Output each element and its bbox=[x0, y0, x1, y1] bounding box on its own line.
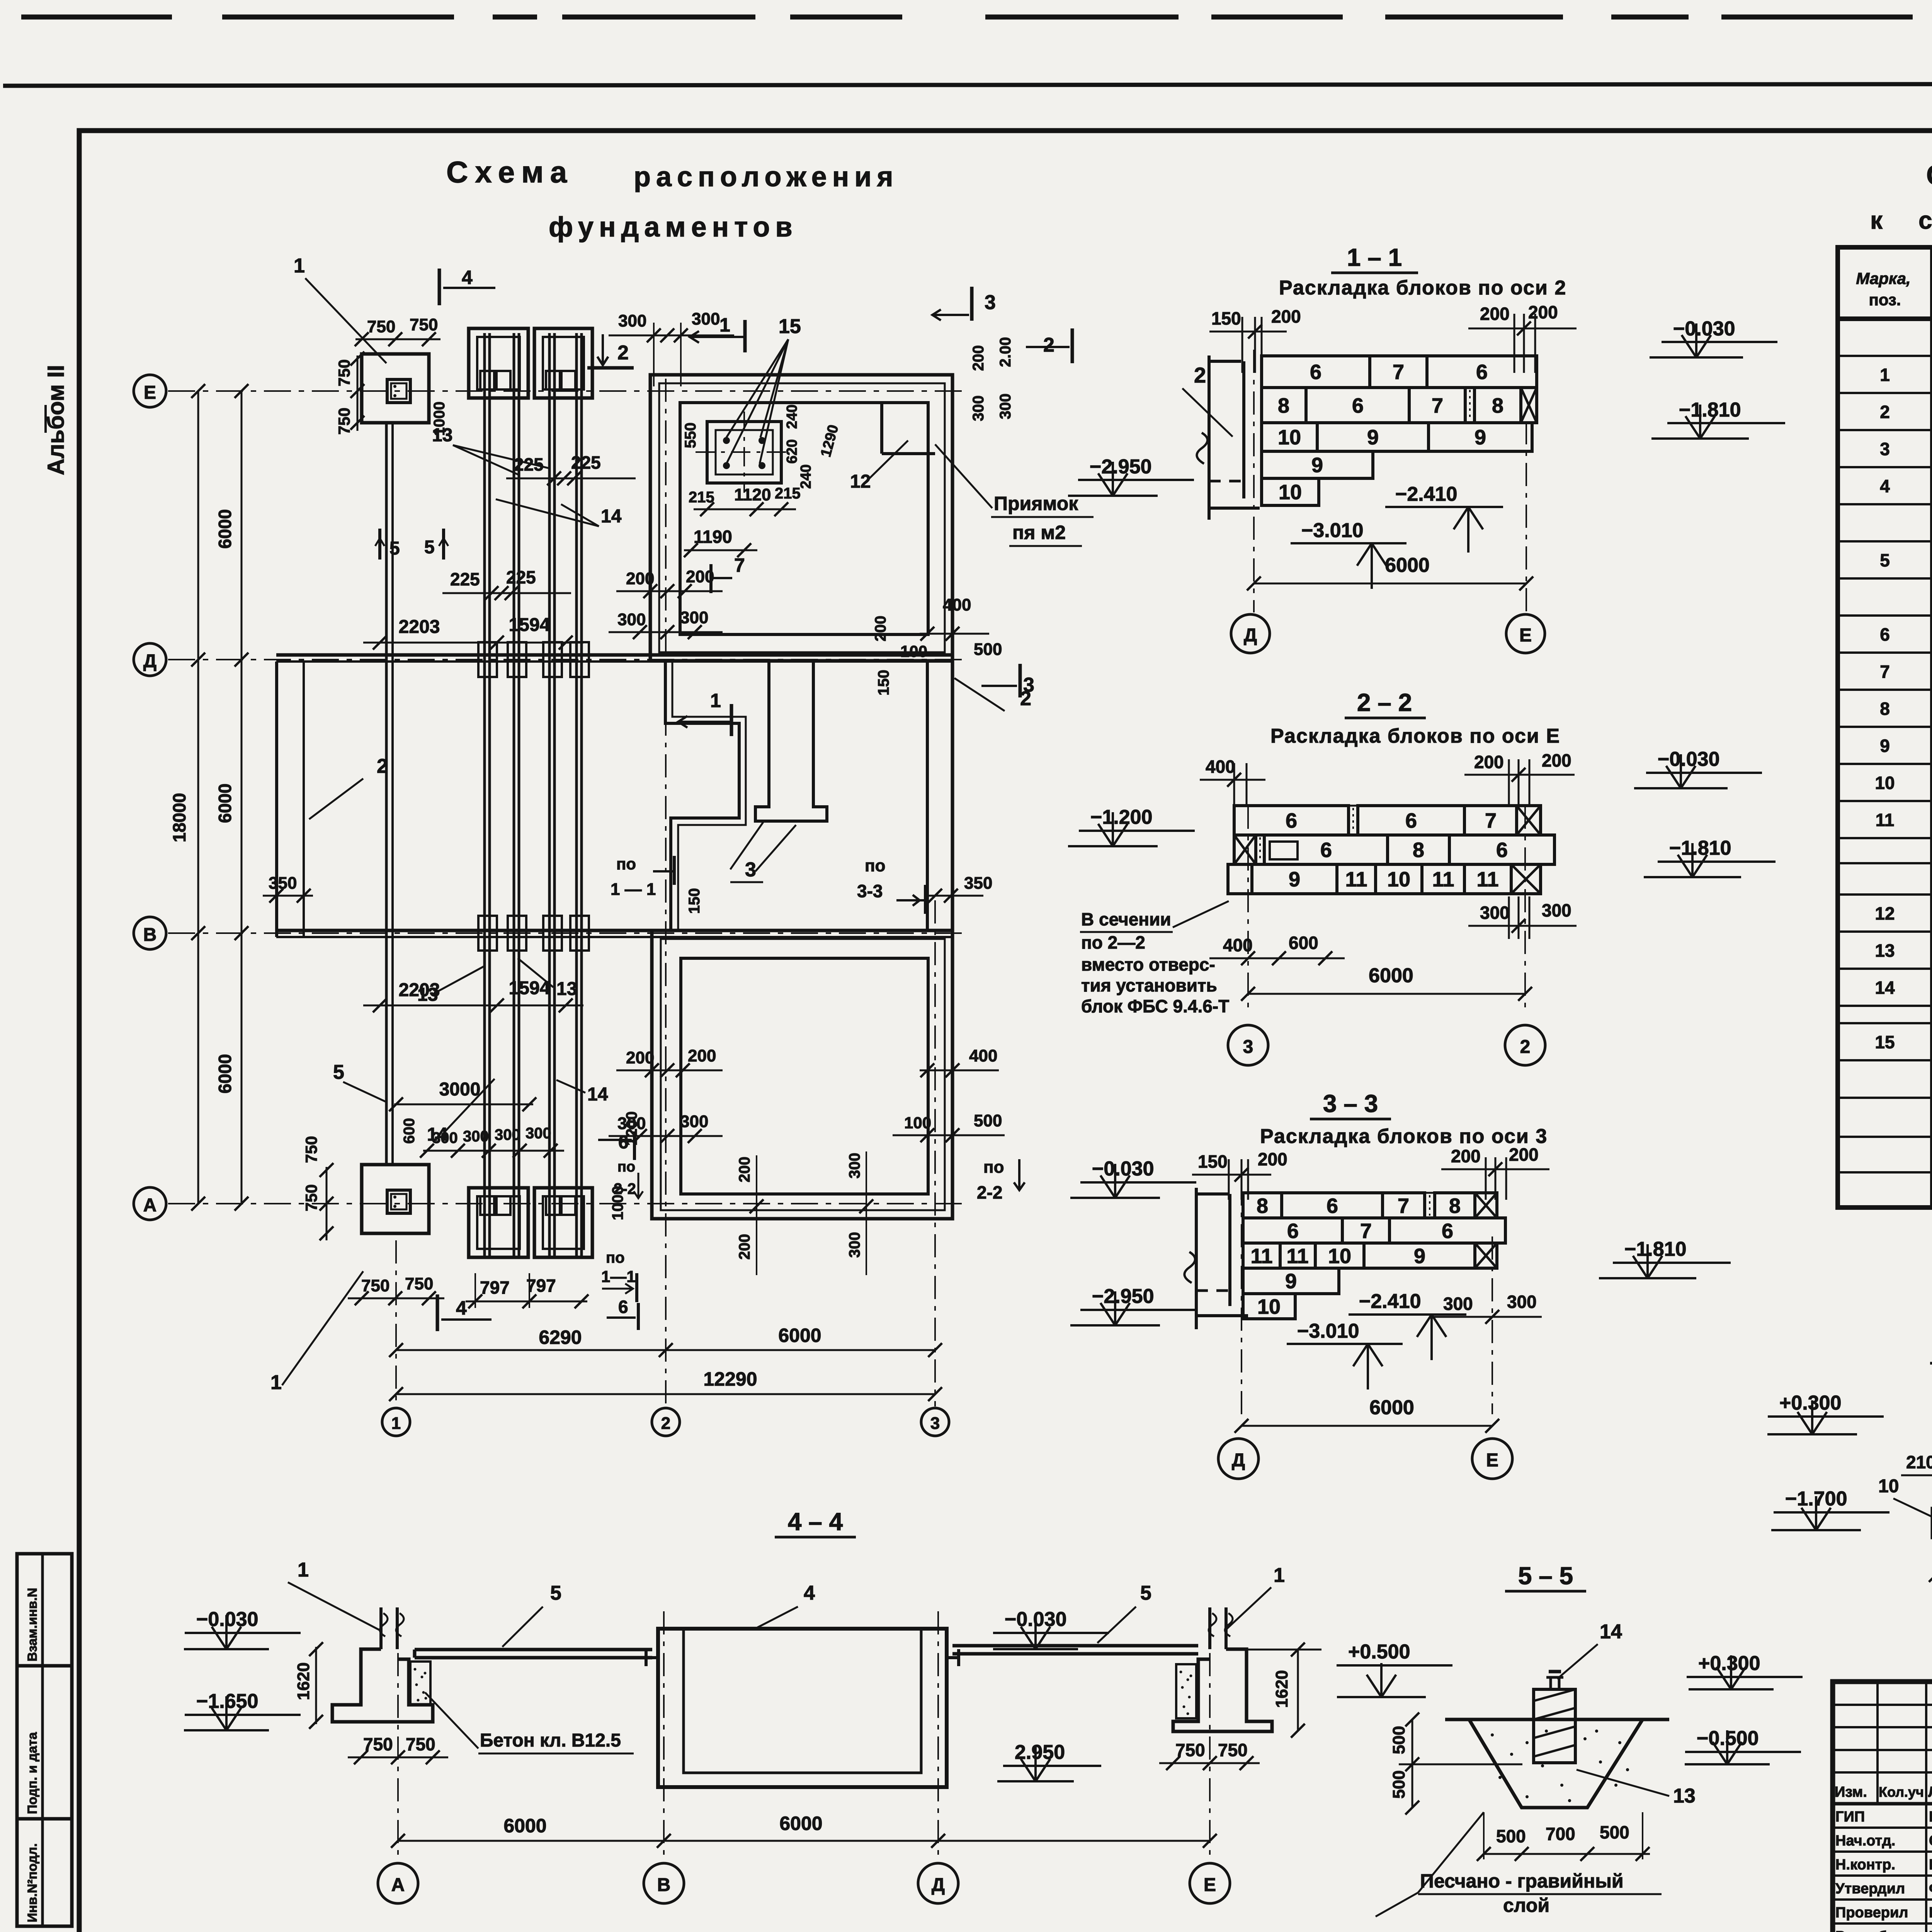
svg-text:Е: Е bbox=[1486, 1450, 1498, 1471]
svg-text:к: к bbox=[1870, 206, 1883, 234]
svg-text:200: 200 bbox=[1542, 750, 1571, 770]
svg-text:8: 8 bbox=[1449, 1194, 1461, 1218]
svg-text:6: 6 bbox=[618, 1132, 629, 1153]
svg-text:Проверил: Проверил bbox=[1835, 1905, 1908, 1921]
svg-text:1: 1 bbox=[294, 255, 305, 277]
svg-text:1620: 1620 bbox=[1272, 1670, 1291, 1708]
svg-text:2: 2 bbox=[1520, 1037, 1531, 1057]
section 6-6 bbox=[1767, 1334, 1932, 1630]
svg-text:6: 6 bbox=[1286, 809, 1297, 832]
svg-text:6290: 6290 bbox=[539, 1327, 582, 1348]
rail anchor box bottom left bbox=[469, 1188, 528, 1257]
svg-text:А: А bbox=[143, 1195, 157, 1216]
svg-text:6: 6 bbox=[1352, 394, 1364, 417]
svg-text:вместо отверс-: вместо отверс- bbox=[1081, 954, 1215, 975]
plan bottom dims bbox=[382, 379, 949, 1436]
svg-text:по: по bbox=[616, 855, 636, 873]
svg-text:6: 6 bbox=[618, 1297, 628, 1317]
dims bottom room bbox=[601, 1046, 1025, 1330]
svg-text:300: 300 bbox=[692, 310, 720, 328]
svg-text:5: 5 bbox=[424, 537, 435, 558]
pit PYam2 plan bbox=[696, 412, 792, 493]
rail clamps at axis V bbox=[478, 916, 497, 951]
svg-text:200: 200 bbox=[626, 569, 654, 588]
svg-text:9: 9 bbox=[1285, 1270, 1297, 1293]
svg-text:11: 11 bbox=[1345, 868, 1367, 891]
svg-text:10: 10 bbox=[1875, 773, 1895, 793]
section cut 2 right bbox=[1026, 328, 1072, 363]
section cut 3 mid bbox=[981, 664, 1034, 697]
svg-text:200: 200 bbox=[1451, 1146, 1481, 1166]
svg-text:3: 3 bbox=[930, 1414, 940, 1433]
pit PYam1 (4-4) bbox=[646, 1582, 959, 1787]
svg-text:1: 1 bbox=[391, 1414, 401, 1433]
svg-text:тия установить: тия установить bbox=[1081, 975, 1217, 995]
svg-text:10: 10 bbox=[1279, 481, 1302, 504]
svg-text:750: 750 bbox=[361, 1276, 389, 1295]
svg-text:150: 150 bbox=[1211, 308, 1241, 328]
axis circle А (4-4) bbox=[397, 1611, 399, 1862]
corner notch 12 bbox=[850, 404, 935, 492]
svg-text:3-3: 3-3 bbox=[857, 881, 883, 901]
building bottom room bbox=[652, 930, 952, 1219]
svg-text:10: 10 bbox=[1328, 1245, 1351, 1268]
svg-text:12: 12 bbox=[850, 471, 871, 492]
svg-text:6: 6 bbox=[1880, 624, 1890, 645]
rail anchor box top left bbox=[469, 328, 528, 398]
svg-text:14: 14 bbox=[587, 1084, 608, 1105]
section cut 1 top bbox=[690, 314, 745, 352]
svg-text:Бабурин: Бабурин bbox=[1929, 1857, 1932, 1873]
svg-text:Спецификация: Спецификация bbox=[1926, 160, 1932, 191]
svg-text:6: 6 bbox=[1442, 1219, 1453, 1243]
svg-text:1 — 1: 1 — 1 bbox=[611, 880, 656, 899]
section cut 6 marks bbox=[598, 1131, 643, 1198]
svg-text:200: 200 bbox=[1509, 1145, 1539, 1165]
axis circle 3 (2-2) bbox=[1228, 1025, 1268, 1065]
svg-text:3 – 3: 3 – 3 bbox=[1323, 1090, 1378, 1117]
labels 13 14 rails top bbox=[432, 425, 622, 527]
svg-text:Инв.N²подл.: Инв.N²подл. bbox=[25, 1843, 40, 1922]
dims 225 upper bbox=[506, 452, 636, 485]
specification table bbox=[1838, 247, 1932, 1207]
svg-text:600: 600 bbox=[1289, 933, 1318, 953]
section 1-1 bbox=[1068, 243, 1785, 653]
svg-text:200: 200 bbox=[1258, 1149, 1287, 1169]
svg-text:7: 7 bbox=[1360, 1219, 1372, 1243]
svg-text:9: 9 bbox=[1475, 426, 1486, 449]
svg-text:300: 300 bbox=[846, 1232, 863, 1258]
svg-text:8: 8 bbox=[1880, 699, 1890, 719]
svg-text:6000: 6000 bbox=[215, 509, 235, 549]
svg-text:Песчано - гравийный: Песчано - гравийный bbox=[1420, 1870, 1624, 1892]
svg-text:Е: Е bbox=[1519, 625, 1532, 646]
svg-text:350: 350 bbox=[964, 874, 992, 893]
plan axis D bbox=[168, 659, 966, 660]
svg-text:13: 13 bbox=[1673, 1785, 1696, 1807]
svg-text:620: 620 bbox=[784, 439, 800, 464]
svg-text:по: по bbox=[983, 1158, 1004, 1177]
building top room bbox=[650, 375, 952, 661]
svg-text:ГИП: ГИП bbox=[1835, 1809, 1865, 1825]
svg-text:5: 5 bbox=[1880, 550, 1890, 570]
svg-text:750: 750 bbox=[367, 317, 395, 336]
svg-text:550: 550 bbox=[682, 422, 699, 448]
svg-text:300: 300 bbox=[526, 1125, 551, 1142]
svg-text:300: 300 bbox=[617, 610, 646, 629]
svg-text:8: 8 bbox=[1278, 394, 1289, 417]
svg-text:3000: 3000 bbox=[439, 1079, 481, 1100]
axis circle 2 (plan) bbox=[665, 379, 667, 1406]
section cut 2 top bbox=[587, 334, 634, 368]
svg-text:200: 200 bbox=[736, 1156, 753, 1182]
svg-text:750: 750 bbox=[1218, 1740, 1248, 1760]
rail pit (5-5) bbox=[1445, 1672, 1669, 1808]
dims 797 bbox=[466, 1273, 588, 1308]
svg-text:150: 150 bbox=[686, 888, 703, 914]
slab 5 right (4-4) bbox=[952, 1644, 1198, 1648]
svg-text:3: 3 bbox=[985, 291, 996, 314]
svg-text:Севостьянов: Севостьянов bbox=[1929, 1833, 1932, 1849]
svg-text:14: 14 bbox=[1600, 1621, 1622, 1643]
svg-text:схеме: схеме bbox=[1918, 206, 1932, 234]
svg-text:поз.: поз. bbox=[1869, 291, 1901, 309]
svg-text:5: 5 bbox=[333, 1061, 344, 1083]
svg-text:6: 6 bbox=[1405, 809, 1417, 832]
svg-text:3: 3 bbox=[745, 859, 756, 881]
footing Fm1 left (4-4) bbox=[332, 1607, 433, 1722]
svg-text:750: 750 bbox=[302, 1136, 320, 1163]
svg-text:1620: 1620 bbox=[294, 1662, 313, 1700]
svg-text:6000: 6000 bbox=[1369, 1396, 1414, 1419]
svg-text:по: по bbox=[865, 856, 885, 875]
svg-text:Е: Е bbox=[1204, 1875, 1216, 1895]
dims 225 lower bbox=[442, 567, 571, 600]
svg-text:7: 7 bbox=[1398, 1194, 1409, 1218]
svg-text:797: 797 bbox=[526, 1276, 556, 1296]
section 2-2 bbox=[1068, 689, 1776, 1065]
svg-text:Д: Д bbox=[143, 651, 156, 672]
svg-text:5: 5 bbox=[1140, 1582, 1151, 1604]
svg-text:1: 1 bbox=[298, 1559, 309, 1581]
svg-text:10: 10 bbox=[1387, 868, 1410, 891]
svg-text:225: 225 bbox=[506, 567, 536, 587]
svg-text:11: 11 bbox=[1476, 868, 1498, 891]
svg-text:750: 750 bbox=[410, 315, 438, 334]
svg-text:слой: слой bbox=[1503, 1895, 1549, 1916]
svg-text:по: по bbox=[606, 1249, 625, 1266]
svg-text:2: 2 bbox=[1880, 402, 1890, 422]
svg-text:400: 400 bbox=[969, 1046, 997, 1065]
svg-text:Д: Д bbox=[1244, 625, 1257, 646]
plan axis E bbox=[168, 390, 966, 392]
svg-text:300: 300 bbox=[1507, 1292, 1537, 1312]
title block bbox=[1833, 1682, 1932, 1932]
svg-text:150: 150 bbox=[1198, 1151, 1228, 1172]
dim 3000 bbox=[389, 1079, 536, 1111]
svg-text:215: 215 bbox=[775, 485, 801, 502]
svg-text:750: 750 bbox=[335, 408, 353, 435]
svg-text:4 – 4: 4 – 4 bbox=[788, 1508, 843, 1536]
svg-text:500: 500 bbox=[1600, 1822, 1629, 1842]
svg-text:2-2: 2-2 bbox=[977, 1182, 1002, 1202]
svg-text:2: 2 bbox=[617, 342, 629, 364]
svg-text:8: 8 bbox=[1257, 1194, 1268, 1218]
main title bbox=[446, 155, 898, 243]
svg-text:2 – 2: 2 – 2 bbox=[1357, 689, 1412, 716]
svg-text:2: 2 bbox=[377, 755, 388, 777]
svg-text:200: 200 bbox=[626, 1048, 654, 1067]
svg-text:10: 10 bbox=[1878, 1476, 1899, 1497]
svg-text:Бабурин: Бабурин bbox=[1929, 1905, 1932, 1921]
svg-text:6: 6 bbox=[1320, 838, 1332, 862]
svg-text:8: 8 bbox=[1492, 394, 1503, 417]
beam along axis 1 bbox=[386, 423, 393, 1165]
svg-text:Кол.уч: Кол.уч bbox=[1879, 1784, 1924, 1800]
svg-text:1290: 1290 bbox=[818, 423, 842, 459]
svg-text:1: 1 bbox=[1274, 1564, 1285, 1587]
axis circle D (3-3) bbox=[1218, 1439, 1259, 1479]
svg-text:225: 225 bbox=[514, 454, 544, 474]
svg-text:750: 750 bbox=[406, 1734, 435, 1754]
svg-text:750: 750 bbox=[302, 1184, 320, 1211]
svg-text:200: 200 bbox=[1474, 752, 1504, 772]
svg-text:В: В bbox=[143, 925, 157, 945]
svg-text:200: 200 bbox=[736, 1234, 753, 1260]
pad Fm1 bottom bbox=[270, 1136, 444, 1394]
axis circle В (4-4) bbox=[663, 1611, 665, 1862]
svg-text:6: 6 bbox=[1476, 361, 1488, 384]
svg-text:2: 2 bbox=[661, 1414, 670, 1433]
svg-text:300: 300 bbox=[970, 395, 987, 421]
footing Fm1 right (4-4) bbox=[1173, 1607, 1272, 1731]
labels 13 lower bbox=[417, 958, 577, 1005]
svg-text:Раскладка блоков по оси Е: Раскладка блоков по оси Е bbox=[1270, 725, 1560, 747]
section 7-7 bbox=[134, 255, 1932, 1562]
svg-text:300: 300 bbox=[1443, 1294, 1473, 1314]
svg-text:500: 500 bbox=[974, 640, 1002, 659]
svg-text:Утвердил: Утвердил bbox=[1835, 1881, 1905, 1897]
svg-text:Федотов: Федотов bbox=[1929, 1881, 1932, 1897]
svg-text:225: 225 bbox=[571, 452, 601, 473]
svg-text:9: 9 bbox=[1289, 868, 1300, 891]
svg-text:по: по bbox=[617, 1159, 635, 1175]
svg-text:12: 12 bbox=[1875, 903, 1895, 923]
svg-text:200: 200 bbox=[1480, 304, 1510, 324]
svg-text:5 – 5: 5 – 5 bbox=[1518, 1562, 1573, 1590]
svg-text:200: 200 bbox=[872, 616, 889, 641]
svg-text:А: А bbox=[391, 1875, 405, 1895]
svg-text:7: 7 bbox=[1485, 809, 1497, 832]
svg-text:5: 5 bbox=[550, 1582, 561, 1604]
axis circle 2 (2-2) bbox=[1505, 1025, 1545, 1065]
svg-text:100: 100 bbox=[904, 1114, 931, 1132]
top fold line bbox=[21, 15, 1932, 20]
svg-text:4: 4 bbox=[1880, 476, 1890, 496]
svg-text:700: 700 bbox=[1546, 1824, 1575, 1844]
svg-text:фундаментов: фундаментов bbox=[549, 212, 798, 243]
svg-text:797: 797 bbox=[480, 1277, 510, 1298]
svg-text:9: 9 bbox=[1880, 736, 1890, 756]
svg-text:3: 3 bbox=[1880, 439, 1890, 459]
svg-text:расположения: расположения bbox=[634, 162, 898, 192]
dims 300x4 bbox=[420, 1125, 564, 1158]
svg-text:200: 200 bbox=[686, 567, 714, 586]
svg-text:Лист: Лист bbox=[1928, 1784, 1932, 1800]
svg-text:13: 13 bbox=[556, 979, 577, 999]
svg-text:300: 300 bbox=[997, 393, 1014, 419]
svg-text:Кузнецов: Кузнецов bbox=[1929, 1809, 1932, 1825]
svg-text:215: 215 bbox=[689, 489, 714, 506]
svg-text:Раскладка блоков по оси 2: Раскладка блоков по оси 2 bbox=[1279, 277, 1566, 299]
section 5-5 bbox=[1337, 1562, 1803, 1917]
svg-text:500: 500 bbox=[1389, 1770, 1408, 1799]
axis circle D (1-1) bbox=[1231, 614, 1270, 653]
svg-text:Альбом II: Альбом II bbox=[43, 365, 69, 475]
svg-text:Нач.отд.: Нач.отд. bbox=[1835, 1833, 1895, 1849]
svg-text:1120: 1120 bbox=[734, 485, 771, 504]
svg-text:6000: 6000 bbox=[1369, 964, 1413, 987]
spec title bbox=[1870, 158, 1932, 234]
svg-text:6: 6 bbox=[1310, 361, 1321, 384]
svg-text:Д: Д bbox=[932, 1875, 945, 1895]
svg-text:Схема: Схема bbox=[446, 155, 574, 189]
svg-text:1: 1 bbox=[270, 1371, 282, 1394]
svg-text:100: 100 bbox=[900, 642, 927, 660]
svg-text:1594: 1594 bbox=[509, 978, 550, 998]
svg-text:14: 14 bbox=[601, 506, 622, 527]
axis circle Д (4-4) bbox=[937, 1611, 939, 1862]
section 3-3 bbox=[1070, 1090, 1731, 1479]
svg-text:6000: 6000 bbox=[779, 1813, 822, 1834]
rail clamps at axis D bbox=[478, 642, 497, 677]
svg-text:500: 500 bbox=[974, 1111, 1002, 1130]
svg-text:1: 1 bbox=[1880, 365, 1890, 385]
svg-text:4: 4 bbox=[456, 1297, 467, 1319]
svg-text:+0.300: +0.300 bbox=[1698, 1652, 1760, 1675]
svg-text:750: 750 bbox=[335, 359, 353, 386]
svg-text:Д: Д bbox=[1232, 1450, 1245, 1471]
axis circle 3 (plan) bbox=[934, 900, 936, 1406]
svg-text:1190: 1190 bbox=[694, 527, 732, 547]
pryamok label bbox=[935, 444, 1094, 546]
svg-text:Изм.: Изм. bbox=[1835, 1784, 1867, 1800]
svg-text:11: 11 bbox=[1286, 1245, 1308, 1268]
svg-text:+0.500: +0.500 bbox=[1348, 1641, 1410, 1663]
svg-text:300: 300 bbox=[1480, 903, 1510, 923]
label 15 top bbox=[726, 315, 801, 464]
svg-text:6000: 6000 bbox=[215, 784, 235, 823]
svg-text:2: 2 bbox=[1043, 334, 1054, 356]
left margin table bbox=[17, 1554, 72, 1926]
svg-text:210: 210 bbox=[1906, 1452, 1932, 1472]
svg-text:300: 300 bbox=[618, 311, 646, 330]
plan axis A bbox=[168, 1203, 966, 1204]
svg-text:10: 10 bbox=[1278, 426, 1301, 449]
section 4-4 bbox=[184, 1508, 1321, 1903]
svg-text:400: 400 bbox=[943, 595, 971, 614]
rail anchor box bottom right bbox=[534, 1188, 592, 1257]
svg-text:11: 11 bbox=[1250, 1245, 1272, 1268]
left beam line bbox=[277, 662, 388, 1102]
section cut 4 top bbox=[439, 267, 495, 305]
svg-text:Е: Е bbox=[144, 383, 156, 403]
svg-text:2.00: 2.00 bbox=[997, 337, 1014, 367]
building middle section bbox=[263, 616, 1031, 937]
svg-text:Взам.инв.N: Взам.инв.N bbox=[25, 1588, 40, 1662]
svg-text:−2.410: −2.410 bbox=[1359, 1290, 1421, 1313]
svg-text:400: 400 bbox=[1206, 757, 1235, 777]
section cut 5 marks bbox=[375, 529, 448, 560]
svg-text:300: 300 bbox=[680, 1112, 708, 1131]
svg-text:6000: 6000 bbox=[778, 1325, 821, 1346]
section cut 3 top bbox=[932, 287, 996, 321]
svg-text:200: 200 bbox=[1271, 306, 1301, 327]
svg-text:200: 200 bbox=[1528, 302, 1558, 322]
svg-text:8: 8 bbox=[1413, 838, 1424, 862]
slab 5 left (4-4) bbox=[415, 1648, 652, 1651]
svg-text:9: 9 bbox=[1311, 454, 1323, 477]
svg-text:−1.810: −1.810 bbox=[1679, 399, 1741, 421]
dim 6000 row (4-4) bbox=[398, 1840, 1210, 1842]
dims around top room bbox=[609, 310, 1014, 660]
svg-text:3: 3 bbox=[1243, 1037, 1253, 1057]
axis circle 1 (plan) bbox=[395, 1240, 397, 1406]
svg-text:Разработ.: Разработ. bbox=[1835, 1929, 1905, 1932]
svg-text:−3.010: −3.010 bbox=[1297, 1320, 1359, 1342]
svg-text:Марка,: Марка, bbox=[1856, 269, 1910, 287]
svg-text:6000: 6000 bbox=[215, 1054, 235, 1094]
svg-text:300: 300 bbox=[1542, 900, 1571, 920]
svg-text:Н.контр.: Н.контр. bbox=[1835, 1857, 1895, 1873]
svg-text:14: 14 bbox=[1875, 978, 1895, 998]
svg-text:500: 500 bbox=[1496, 1826, 1526, 1846]
svg-text:6000: 6000 bbox=[1385, 554, 1430, 577]
svg-text:4: 4 bbox=[804, 1582, 815, 1604]
svg-text:2-2: 2-2 bbox=[614, 1180, 636, 1197]
dims 2203 1594 lower bbox=[363, 978, 583, 1012]
svg-text:18000: 18000 bbox=[169, 793, 189, 842]
plan axis V bbox=[168, 932, 966, 934]
axis circle E (1-1) bbox=[1506, 614, 1545, 653]
svg-text:3: 3 bbox=[1023, 674, 1034, 696]
svg-text:блок ФБС 9.4.6-Т: блок ФБС 9.4.6-Т bbox=[1081, 996, 1229, 1016]
svg-text:−2.410: −2.410 bbox=[1395, 483, 1458, 505]
svg-text:6: 6 bbox=[1287, 1219, 1299, 1243]
svg-text:7: 7 bbox=[1393, 361, 1404, 384]
svg-text:9: 9 bbox=[1367, 426, 1379, 449]
labels 14 lower bbox=[427, 1079, 608, 1145]
section cut 4 bottom bbox=[437, 1294, 492, 1331]
svg-text:13: 13 bbox=[417, 985, 438, 1005]
svg-text:Приямок: Приямок bbox=[994, 493, 1078, 514]
svg-text:240: 240 bbox=[784, 405, 800, 429]
svg-text:1—1: 1—1 bbox=[601, 1267, 636, 1286]
svg-text:1 – 1: 1 – 1 bbox=[1347, 243, 1402, 271]
svg-text:15: 15 bbox=[1875, 1032, 1895, 1052]
left dim chain 18000 bbox=[169, 384, 248, 1211]
svg-text:9: 9 bbox=[1414, 1245, 1425, 1268]
svg-text:Бетон кл. В12.5: Бетон кл. В12.5 bbox=[480, 1730, 621, 1751]
rails bbox=[485, 333, 582, 1257]
svg-text:10: 10 bbox=[1257, 1295, 1281, 1318]
svg-text:12290: 12290 bbox=[703, 1368, 757, 1390]
svg-text:1: 1 bbox=[719, 314, 730, 336]
svg-text:пя м2: пя м2 bbox=[1012, 522, 1066, 543]
svg-text:1000: 1000 bbox=[431, 401, 448, 436]
svg-text:Карташова: Карташова bbox=[1929, 1929, 1932, 1932]
svg-text:7: 7 bbox=[1432, 394, 1443, 417]
